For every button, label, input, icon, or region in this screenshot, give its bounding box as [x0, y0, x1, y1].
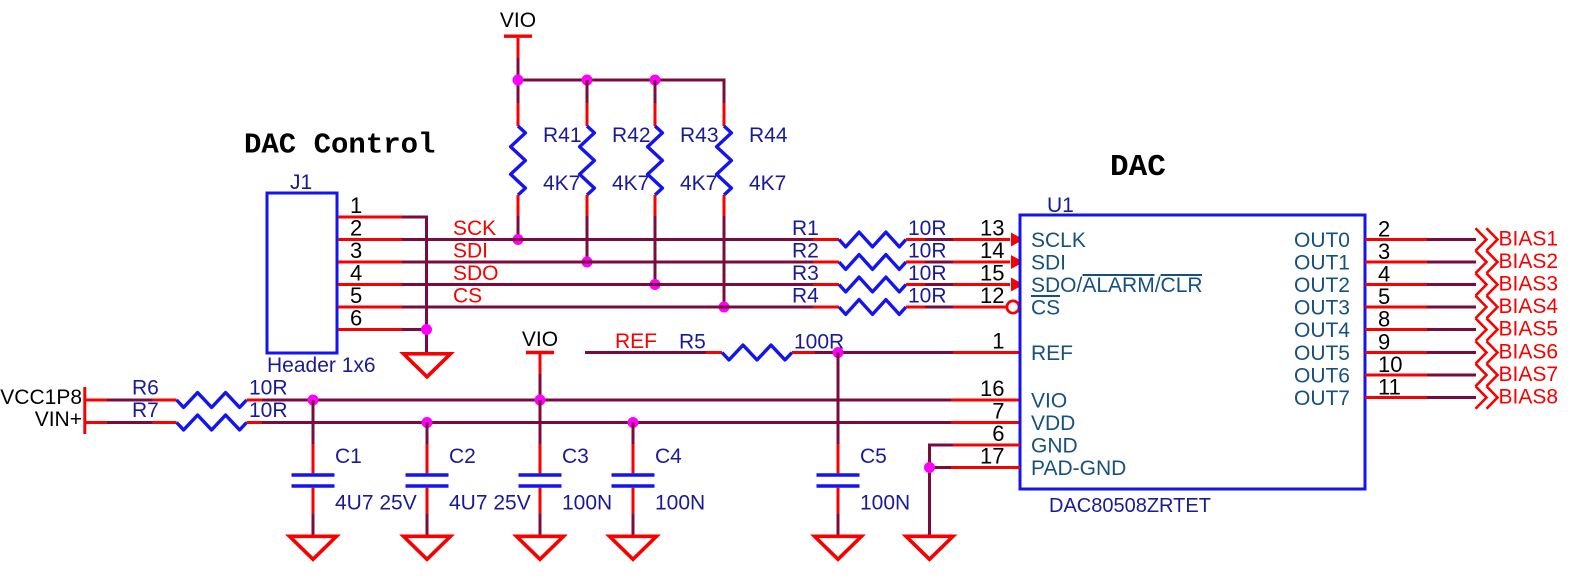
port BIAS7 [1476, 363, 1559, 386]
svg-text:BIAS6: BIAS6 [1499, 341, 1559, 364]
svg-text:OUT0: OUT0 [1294, 229, 1350, 252]
svg-text:3: 3 [350, 238, 362, 263]
ground symbol under C2 [404, 536, 451, 559]
resistor R6 10R [132, 377, 288, 408]
wire net REF [585, 351, 706, 354]
svg-text:3: 3 [1378, 239, 1390, 264]
svg-text:DAC80508ZRTET: DAC80508ZRTET [1049, 495, 1211, 517]
svg-text:VIN+: VIN+ [35, 408, 82, 431]
junction GND-PADGND [924, 462, 935, 473]
svg-text:OUT6: OUT6 [1294, 365, 1350, 388]
pin stub U1 pin8 OUT4 [1365, 328, 1427, 331]
svg-text:16: 16 [980, 376, 1004, 401]
pin 1 of J1 [338, 193, 402, 218]
wire C4 to ground [632, 513, 635, 536]
svg-text:BIAS4: BIAS4 [1499, 295, 1559, 318]
connector J1 Header 1x6 [267, 193, 337, 353]
input arrow pin15 [1011, 278, 1024, 292]
wire R4 to U1 [925, 306, 953, 309]
svg-text:GND: GND [1031, 435, 1078, 458]
svg-text:4: 4 [1378, 262, 1390, 287]
junction bus-R42 [582, 75, 593, 86]
wire GND to vertical [928, 444, 953, 447]
port BIAS5 [1476, 318, 1559, 341]
resistor R43 4K7 [648, 103, 719, 216]
input arrow pin14 [1011, 255, 1024, 269]
svg-text:REF: REF [615, 330, 657, 353]
resistor R44 4K7 [717, 103, 788, 216]
svg-text:12: 12 [980, 283, 1004, 308]
wire OUT6 to port [1427, 374, 1476, 377]
port BIAS8 [1476, 386, 1559, 409]
svg-text:100N: 100N [655, 492, 705, 515]
svg-text:BIAS7: BIAS7 [1499, 363, 1559, 386]
svg-text:8: 8 [1378, 307, 1390, 332]
svg-text:4U7 25V: 4U7 25V [335, 492, 417, 515]
pin stub U1 pin2 OUT0 [1365, 238, 1427, 241]
wire PAD-GND to vertical [928, 466, 951, 469]
wire VIO rail vertical [517, 58, 520, 103]
pin stub U1 pin10 OUT6 [1365, 374, 1427, 377]
svg-text:100N: 100N [860, 492, 910, 515]
svg-text:SDI: SDI [1031, 252, 1066, 275]
wire R2 to U1 [925, 261, 953, 264]
svg-text:OUT3: OUT3 [1294, 297, 1350, 320]
wire to R7 [106, 421, 152, 424]
wire J1 pin6 to ground net [402, 328, 427, 331]
svg-text:REF: REF [1031, 342, 1073, 365]
svg-text:Header 1x6: Header 1x6 [267, 354, 376, 377]
svg-text:5: 5 [1378, 284, 1390, 309]
wire net SDO [402, 283, 813, 286]
junction VDD-C4 [628, 417, 639, 428]
svg-text:CS: CS [1031, 297, 1060, 320]
wire J1 pin1 to ground net [402, 216, 428, 219]
svg-text:10R: 10R [908, 240, 947, 263]
svg-text:R1: R1 [792, 217, 819, 240]
ground symbol under J1 [404, 354, 451, 377]
power symbol VIO (middle) [522, 328, 558, 374]
capacitor C5 100N [817, 444, 911, 515]
wire OUT4 to port [1427, 328, 1476, 331]
resistor R4 10R [792, 285, 947, 315]
pin stub U1 pin13 SCLK [953, 238, 1010, 241]
svg-text:VDD: VDD [1031, 412, 1075, 435]
wire C3 to ground [539, 513, 542, 536]
svg-text:R6: R6 [132, 377, 159, 400]
input arrow pin13 [1011, 233, 1024, 247]
svg-text:VIO: VIO [500, 9, 536, 32]
svg-text:SDI: SDI [453, 240, 488, 263]
svg-text:4K7: 4K7 [612, 172, 649, 195]
svg-text:OUT2: OUT2 [1294, 274, 1350, 297]
power symbol VIO (top) [500, 9, 536, 58]
svg-text:C2: C2 [449, 445, 476, 468]
wire C5 to net [837, 353, 840, 445]
svg-text:4U7 25V: 4U7 25V [449, 492, 531, 515]
port BIAS6 [1476, 341, 1559, 364]
resistor R3 10R [792, 262, 947, 292]
pin name SDO/ALARM/CLR [1031, 274, 1203, 297]
pin stub U1 pin9 OUT5 [1365, 351, 1427, 354]
svg-text:OUT1: OUT1 [1294, 252, 1350, 275]
wire C2 to ground [426, 513, 429, 536]
svg-text:DAC Control: DAC Control [244, 129, 435, 162]
svg-text:10R: 10R [908, 217, 947, 240]
wire OUT7 to port [1427, 396, 1476, 399]
resistor R1 10R [792, 217, 947, 247]
pin stub U1 pin12 CS [953, 306, 1008, 309]
ic U1 DAC80508ZRTET body [1020, 215, 1365, 489]
pin 4 of J1 [338, 261, 402, 286]
capacitor C2 4U7 25V [406, 444, 531, 515]
ground symbol under C5 [815, 536, 862, 559]
pin stub U1 pin3 OUT1 [1365, 261, 1427, 264]
svg-text:BIAS3: BIAS3 [1499, 273, 1559, 296]
svg-text:4: 4 [350, 261, 362, 286]
svg-text:C4: C4 [655, 445, 682, 468]
wire R5 to U1 REF [815, 351, 953, 354]
wire net SCK [402, 238, 813, 241]
junction VIO-C1 [308, 395, 319, 406]
svg-text:VCC1P8: VCC1P8 [0, 386, 82, 409]
svg-text:OUT5: OUT5 [1294, 342, 1350, 365]
svg-text:OUT7: OUT7 [1294, 387, 1350, 410]
wire net CS [402, 306, 813, 309]
wire R3 to U1 [925, 283, 953, 286]
wire VIO rail bus horizontal [517, 79, 726, 82]
junction R42-SDI [582, 257, 593, 268]
svg-text:10R: 10R [249, 399, 288, 422]
junction R43-SDO [650, 279, 661, 290]
svg-text:R7: R7 [132, 399, 159, 422]
svg-text:10R: 10R [249, 377, 288, 400]
svg-text:SCLK: SCLK [1031, 229, 1086, 252]
svg-text:SDO: SDO [453, 262, 499, 285]
pin 6 of J1 [338, 306, 402, 331]
junction bus-R43 [650, 75, 661, 86]
pin stub U1 pin11 OUT7 [1365, 396, 1427, 399]
port VCC1P8 [0, 386, 85, 434]
resistor R7 10R [132, 399, 288, 430]
resistor R41 4K7 [511, 103, 582, 216]
svg-text:5: 5 [350, 283, 362, 308]
pin stub U1 pin16 VIO [951, 399, 1020, 402]
ground symbol under C3 [517, 536, 564, 559]
pin stub U1 pin7 VDD [951, 421, 1020, 424]
svg-text:11: 11 [1378, 375, 1401, 400]
svg-text:10R: 10R [908, 262, 947, 285]
svg-text:OUT4: OUT4 [1294, 319, 1350, 342]
svg-text:2: 2 [1378, 217, 1390, 242]
svg-text:DAC: DAC [1110, 150, 1166, 185]
wire ground vertical [928, 444, 931, 537]
wire bus to R44 [723, 79, 726, 104]
wire C4 to net [632, 423, 635, 445]
pin 5 of J1 [338, 283, 402, 308]
capacitor C1 4U7 25V [292, 444, 417, 515]
wire R41 to signal line [517, 216, 520, 240]
svg-text:4K7: 4K7 [543, 172, 580, 195]
svg-text:6: 6 [992, 421, 1004, 446]
wire OUT2 to port [1427, 283, 1476, 286]
svg-text:100N: 100N [562, 492, 612, 515]
wire OUT1 to port [1427, 261, 1476, 264]
wire OUT3 to port [1427, 306, 1476, 309]
svg-text:2: 2 [350, 216, 362, 241]
wire C5 to ground [837, 513, 840, 536]
svg-text:7: 7 [992, 399, 1004, 424]
svg-text:14: 14 [980, 238, 1004, 263]
svg-text:1: 1 [350, 193, 362, 218]
wire R44 to signal line [723, 216, 726, 307]
svg-text:10R: 10R [908, 285, 947, 308]
wire C2 to net [426, 423, 429, 445]
svg-text:SDO/ALARM/CLR: SDO/ALARM/CLR [1031, 274, 1203, 297]
resistor R5 100R [679, 331, 844, 360]
svg-text:R4: R4 [792, 285, 819, 308]
pin stub U1 pin14 SDI [953, 261, 1010, 264]
wire net SDI [402, 261, 813, 264]
svg-text:13: 13 [980, 216, 1004, 241]
svg-text:R3: R3 [792, 262, 819, 285]
svg-text:6: 6 [350, 306, 362, 331]
junction bus-R41 [513, 75, 524, 86]
pin stub U1 pin5 OUT3 [1365, 306, 1427, 309]
svg-text:4K7: 4K7 [749, 172, 786, 195]
svg-text:VIO: VIO [1031, 390, 1067, 413]
resistor R42 4K7 [580, 103, 651, 216]
svg-text:SCK: SCK [453, 217, 496, 240]
pin stub U1 pin6 GND [953, 444, 1020, 447]
junction R44-CS [719, 302, 730, 313]
svg-text:VIO: VIO [522, 328, 558, 351]
svg-text:R2: R2 [792, 240, 819, 263]
wire R42 to signal line [586, 216, 589, 262]
ground symbol under C4 [610, 536, 657, 559]
pin 3 of J1 [338, 238, 402, 263]
svg-text:BIAS1: BIAS1 [1499, 228, 1559, 251]
svg-text:R5: R5 [679, 331, 706, 354]
svg-text:R44: R44 [749, 124, 788, 147]
svg-text:15: 15 [980, 261, 1004, 286]
port BIAS2 [1476, 250, 1559, 273]
capacitor C3 100N [519, 444, 613, 515]
junction REF-C5 [833, 347, 844, 358]
port BIAS1 [1476, 228, 1559, 251]
pin stub U1 pin17 PAD-GND [951, 466, 1020, 469]
wire net VDD horizontal [262, 421, 951, 424]
junction R41-SCK [513, 234, 524, 245]
wire bus to R43 [654, 80, 657, 103]
svg-text:J1: J1 [290, 171, 312, 194]
wire net VIO horizontal [262, 399, 951, 402]
svg-text:R41: R41 [543, 124, 582, 147]
svg-text:17: 17 [980, 444, 1004, 469]
wire C1 to net [312, 400, 315, 444]
svg-text:9: 9 [1378, 330, 1390, 355]
pin stub port to R6 [85, 399, 107, 402]
pin stub U1 pin4 OUT2 [1365, 283, 1427, 286]
pin 2 of J1 [338, 216, 402, 241]
wire bus to R42 [586, 80, 589, 103]
svg-text:4K7: 4K7 [680, 172, 717, 195]
wire C3 to net [539, 400, 542, 444]
svg-text:10: 10 [1378, 352, 1402, 377]
svg-text:R42: R42 [612, 124, 651, 147]
ground symbol under U1 [906, 536, 953, 559]
svg-text:R43: R43 [680, 124, 719, 147]
pin stub U1 pin1 REF [953, 351, 1020, 354]
svg-text:C3: C3 [562, 445, 589, 468]
svg-text:BIAS5: BIAS5 [1499, 318, 1559, 341]
wire ground net vertical [425, 216, 428, 354]
ground symbol under C1 [290, 536, 337, 559]
wire C1 to ground [312, 513, 315, 536]
wire OUT5 to port [1427, 351, 1476, 354]
svg-text:BIAS2: BIAS2 [1499, 250, 1559, 273]
wire R43 to signal line [654, 216, 657, 285]
svg-text:1: 1 [992, 329, 1004, 354]
wire R1 to U1 [925, 238, 953, 241]
wire VIO symbol to net [539, 374, 542, 400]
wire OUT0 to port [1427, 238, 1476, 241]
svg-text:C5: C5 [860, 445, 887, 468]
svg-text:C1: C1 [335, 445, 362, 468]
pin stub U1 pin15 SDO [953, 283, 1010, 286]
capacitor C4 100N [612, 444, 706, 515]
pin stub port to R7 [85, 421, 107, 424]
wire to R6 [106, 399, 152, 402]
resistor R2 10R [792, 240, 947, 270]
junction pin6-ground [421, 324, 432, 335]
svg-text:U1: U1 [1047, 194, 1074, 217]
svg-text:PAD-GND: PAD-GND [1031, 457, 1126, 480]
junction VIO-C3 [535, 395, 546, 406]
svg-text:BIAS8: BIAS8 [1499, 386, 1559, 409]
port BIAS4 [1476, 295, 1559, 318]
port BIAS3 [1476, 273, 1559, 296]
inversion bubble pin12 CS [1007, 301, 1019, 313]
junction VDD-C2 [422, 417, 433, 428]
svg-text:CS: CS [453, 285, 482, 308]
